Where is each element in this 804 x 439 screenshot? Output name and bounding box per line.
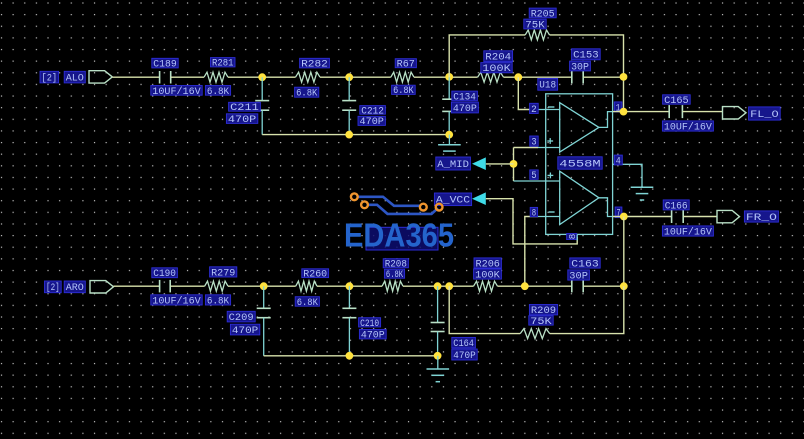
wire — [514, 147, 539, 149]
op-amp U18B triangle — [560, 171, 599, 224]
resistor R67 — [391, 59, 417, 97]
svg-text:R67: R67 — [397, 60, 415, 71]
wire — [625, 164, 642, 187]
svg-text:6.8K: 6.8K — [297, 298, 318, 309]
node junction — [260, 282, 268, 290]
svg-text:6.8K: 6.8K — [393, 86, 414, 97]
svg-text:2: 2 — [531, 105, 537, 116]
pin 2 — [530, 103, 560, 116]
svg-text:C164: C164 — [453, 339, 474, 350]
svg-text:FR_O: FR_O — [746, 213, 777, 224]
wire — [518, 77, 538, 109]
pin 5 — [514, 170, 560, 182]
svg-text:6.8K: 6.8K — [207, 87, 229, 98]
capacitor C211 — [226, 77, 269, 134]
node junction — [434, 282, 442, 290]
svg-text:C189: C189 — [153, 60, 176, 71]
svg-text:10UF/16V: 10UF/16V — [664, 226, 712, 238]
svg-text:A_MID: A_MID — [437, 160, 469, 171]
capacitor C189 — [151, 58, 202, 98]
svg-text:3: 3 — [531, 138, 536, 149]
svg-text:C209: C209 — [229, 313, 254, 324]
ground — [427, 356, 450, 382]
svg-text:470P: 470P — [361, 331, 385, 342]
logo pad — [351, 193, 358, 200]
svg-text:10UF/16V: 10UF/16V — [152, 295, 200, 307]
watermark EDA365 — [344, 217, 454, 254]
node junction — [620, 282, 628, 290]
svg-text:R282: R282 — [301, 60, 328, 71]
logo pad — [361, 201, 368, 208]
svg-text:10UF/16V: 10UF/16V — [664, 121, 712, 133]
resistor R282 — [295, 58, 330, 99]
resistor R208 — [382, 259, 408, 292]
node junction — [514, 73, 522, 81]
svg-text:470P: 470P — [232, 326, 258, 337]
pin 1 — [614, 102, 622, 114]
resistor R260 — [295, 269, 328, 309]
resistor R205 — [524, 8, 556, 40]
ground — [631, 186, 654, 200]
wire — [414, 76, 478, 78]
svg-text:R204: R204 — [485, 53, 511, 64]
wire bus — [262, 134, 449, 136]
node junction — [345, 131, 353, 139]
resistor R204 — [478, 51, 513, 82]
node A_MID junction — [510, 160, 518, 168]
wire — [550, 35, 624, 112]
capacitor C190 — [151, 268, 202, 308]
svg-text:4558M: 4558M — [559, 159, 600, 170]
resistor R206 — [474, 258, 502, 291]
wire — [583, 285, 624, 287]
svg-text:8: 8 — [532, 209, 536, 220]
wire — [171, 76, 204, 78]
svg-text:100K: 100K — [475, 270, 500, 281]
capacitor C164 — [431, 286, 478, 362]
wire — [112, 76, 159, 78]
capacitor C153 — [570, 49, 601, 84]
svg-text:[2]: [2] — [46, 282, 60, 294]
wire — [449, 286, 520, 333]
svg-text:C190: C190 — [153, 269, 176, 280]
wire — [550, 286, 624, 333]
wire — [486, 163, 514, 165]
node junction — [445, 131, 453, 139]
node junction — [620, 213, 628, 221]
logo trace — [368, 205, 438, 214]
node junction — [620, 108, 628, 116]
net label A_MID — [436, 157, 486, 171]
svg-text:C165: C165 — [664, 96, 689, 107]
svg-text:FL_O: FL_O — [750, 110, 779, 121]
node junction — [445, 282, 453, 290]
resistor R281 — [204, 58, 235, 98]
svg-text:470P: 470P — [228, 115, 256, 126]
pin 3 — [530, 136, 560, 149]
svg-text:R279: R279 — [211, 268, 235, 279]
capacitor C212 — [342, 77, 385, 134]
hidden label box — [366, 227, 438, 250]
wire bus — [264, 355, 438, 357]
svg-text:6.8K: 6.8K — [296, 89, 317, 100]
svg-text:R260: R260 — [303, 270, 327, 281]
wire — [525, 217, 538, 287]
wire — [513, 148, 515, 182]
wire — [613, 111, 670, 113]
capacitor C210 — [342, 286, 386, 356]
svg-text:75K: 75K — [525, 20, 544, 31]
wire — [682, 111, 722, 113]
port ARO [2] — [45, 281, 114, 295]
svg-text:ARO: ARO — [66, 283, 84, 294]
svg-text:470P: 470P — [453, 351, 475, 362]
wire — [170, 285, 204, 287]
wire op-amp B output — [599, 198, 613, 217]
wire — [583, 76, 623, 78]
svg-text:5: 5 — [531, 171, 536, 182]
svg-text:470P: 470P — [453, 104, 477, 115]
port ALO [2] — [40, 71, 112, 85]
pin 8 V+ stub — [567, 233, 578, 240]
wire — [504, 76, 572, 78]
node junction — [346, 352, 354, 360]
wire — [486, 199, 577, 244]
wire — [317, 285, 382, 287]
logo pad — [436, 204, 443, 211]
net label A_VCC — [434, 192, 485, 206]
svg-text:6.8K: 6.8K — [207, 296, 229, 307]
wire — [403, 285, 474, 287]
pin 7 — [615, 207, 622, 220]
wire — [683, 216, 717, 218]
svg-text:EDA365: EDA365 — [344, 217, 454, 254]
resistor R279 — [205, 267, 237, 308]
svg-text:10UF/16V: 10UF/16V — [152, 86, 200, 98]
node junction — [346, 282, 354, 290]
wire — [228, 76, 296, 78]
node junction — [258, 73, 266, 81]
ground — [438, 135, 461, 158]
svg-text:C210: C210 — [360, 319, 379, 330]
port FL_O — [723, 107, 781, 121]
svg-text:7: 7 — [617, 209, 621, 220]
svg-text:75K: 75K — [530, 317, 551, 328]
node junction — [434, 352, 442, 360]
svg-text:R281: R281 — [212, 59, 234, 70]
node junction — [620, 73, 628, 81]
svg-text:R205: R205 — [531, 9, 555, 20]
wire — [449, 35, 525, 77]
svg-text:U18: U18 — [539, 81, 556, 92]
part value 4558M — [558, 157, 602, 171]
wire — [623, 217, 625, 287]
svg-text:1: 1 — [616, 103, 621, 114]
node junction — [521, 282, 529, 290]
node junction — [445, 73, 453, 81]
logo trace — [357, 197, 420, 206]
capacitor C163 — [568, 258, 600, 293]
svg-text:6.8K: 6.8K — [386, 270, 403, 281]
svg-text:30P: 30P — [571, 62, 589, 73]
capacitor C209 — [227, 286, 271, 356]
svg-text:[2]: [2] — [42, 73, 58, 85]
wire — [228, 285, 296, 287]
svg-text:8: 8 — [567, 233, 578, 239]
capacitor C165 — [662, 95, 713, 134]
wire — [114, 285, 160, 287]
svg-text:470P: 470P — [360, 117, 384, 128]
resistor R209 — [520, 305, 557, 339]
node junction — [345, 73, 353, 81]
svg-text:C153: C153 — [573, 51, 599, 62]
svg-text:C163: C163 — [571, 259, 598, 270]
wire — [613, 216, 672, 218]
svg-text:C166: C166 — [665, 201, 688, 212]
capacitor C166 — [662, 200, 713, 239]
wire op-amp A output — [599, 112, 613, 128]
svg-text:30P: 30P — [569, 271, 588, 282]
pin 8 — [530, 207, 560, 219]
wire — [498, 285, 572, 287]
svg-text:C211: C211 — [230, 103, 259, 114]
logo pad — [420, 204, 427, 211]
wire — [320, 76, 391, 78]
svg-text:C212: C212 — [361, 106, 384, 117]
capacitor C134 — [442, 77, 478, 134]
pin 4 — [613, 155, 625, 167]
port FR_O — [717, 210, 778, 224]
svg-text:4: 4 — [616, 156, 621, 167]
svg-text:100K: 100K — [482, 64, 510, 75]
svg-text:ALO: ALO — [66, 74, 84, 85]
op-amp U18A triangle — [560, 103, 599, 152]
op-amp U18 box — [538, 78, 613, 234]
